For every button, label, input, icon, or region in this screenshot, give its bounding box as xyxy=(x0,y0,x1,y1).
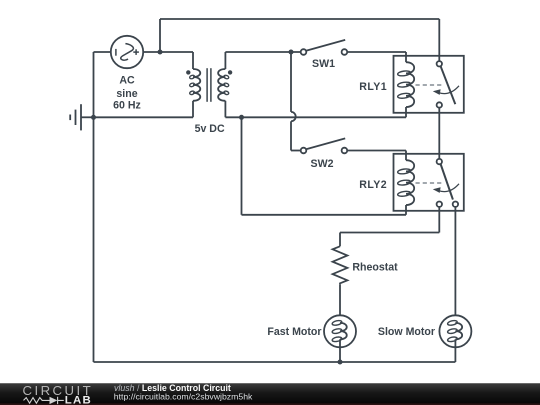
relay RLY1 contacts and lever xyxy=(437,61,456,108)
wire: top rail to RLY1 common xyxy=(160,18,439,20)
wire: RLY2 NO contact to rheostat xyxy=(438,207,440,233)
wire: left vertical (ground net) xyxy=(93,52,95,362)
wire: RLY2 NC contact down to slow motor xyxy=(454,207,456,323)
svg-text:RLY2: RLY2 xyxy=(359,179,387,191)
wire: RLY1 coil return xyxy=(405,107,407,117)
svg-text:5v DC: 5v DC xyxy=(195,123,225,135)
wire: secondary top to SW1 xyxy=(224,52,226,69)
rheostat R1 zigzag xyxy=(333,246,348,284)
node D junction dot (bottom rail / fast motor) xyxy=(338,360,343,365)
relay RLY1 actuation dashes xyxy=(416,84,442,86)
wire: AC source right lead to transformer primary xyxy=(143,51,193,53)
voltage source V1 (AC sine 60 Hz) xyxy=(111,36,143,68)
node B junction dot (secondary hot) xyxy=(289,50,294,55)
wire: primary bottom to ground net xyxy=(192,101,194,118)
svg-text:AC: AC xyxy=(119,75,135,87)
switch SW2 xyxy=(301,138,348,153)
svg-text:SW1: SW1 xyxy=(312,58,335,70)
footer bar background xyxy=(0,383,540,405)
svg-text:RLY1: RLY1 xyxy=(359,81,387,93)
ground symbol xyxy=(70,104,93,130)
transformer T1 core xyxy=(206,68,208,102)
relay RLY1 actuation arrow xyxy=(439,86,460,94)
transformer T1 secondary winding xyxy=(218,69,229,101)
motor M1 (Fast Motor) xyxy=(324,315,356,347)
wire: RLY1 NO contact to RLY2 common xyxy=(438,108,440,159)
wire: rheostat to fast motor xyxy=(339,284,341,323)
relay RLY1 coil xyxy=(397,62,414,107)
relay RLY2 contacts and lever xyxy=(437,159,459,207)
transformer T1 phase dot primary xyxy=(186,70,190,74)
svg-text:SW2: SW2 xyxy=(311,158,334,170)
transformer T1 primary winding xyxy=(189,69,200,101)
relay RLY2 actuation dashes xyxy=(416,182,442,184)
relay RLY2 coil xyxy=(397,160,414,205)
wire: AC source left lead xyxy=(94,51,111,53)
switch SW1 xyxy=(301,40,348,55)
svg-text:sine: sine xyxy=(116,88,137,100)
node C junction dot (return rail) xyxy=(239,115,244,120)
svg-text:LAB: LAB xyxy=(65,394,92,405)
wire: secondary bottom return rail xyxy=(224,101,226,118)
wire: SW1 to RLY1 coil xyxy=(347,51,406,53)
node A junction dot (AC out / top rail) xyxy=(158,50,163,55)
svg-text:60 Hz: 60 Hz xyxy=(113,100,141,112)
relay RLY2 actuation arrow xyxy=(439,184,460,192)
wire: slow motor to bottom rail xyxy=(454,339,456,362)
svg-text:Fast Motor: Fast Motor xyxy=(267,326,321,338)
svg-text:Rheostat: Rheostat xyxy=(352,261,398,273)
wire: branch down to SW2 with hop xyxy=(291,52,301,151)
svg-text:Slow Motor: Slow Motor xyxy=(378,326,435,338)
wire: fast motor to bottom rail xyxy=(339,339,341,362)
footer maroon baseline xyxy=(0,403,540,405)
relay RLY2 body box xyxy=(394,154,464,211)
motor M2 (Slow Motor) xyxy=(439,315,471,347)
wire: riser to top rail xyxy=(159,19,161,52)
relay RLY1 body box xyxy=(394,56,464,113)
label V1: AC sine 60 Hz xyxy=(113,75,141,112)
wire: SW2 to RLY2 coil xyxy=(347,150,406,152)
ground junction dot xyxy=(91,115,96,120)
wire: return rail drop to RLY2 xyxy=(241,117,243,215)
transformer T1 phase dot secondary xyxy=(228,70,232,74)
CircuitLab logo schematic underline (resistor + diode) xyxy=(24,397,64,404)
svg-text:http://circuitlab.com/c2sbvwjb: http://circuitlab.com/c2sbvwjbzm5hk xyxy=(114,391,253,401)
wire: bottom rail xyxy=(94,361,456,363)
